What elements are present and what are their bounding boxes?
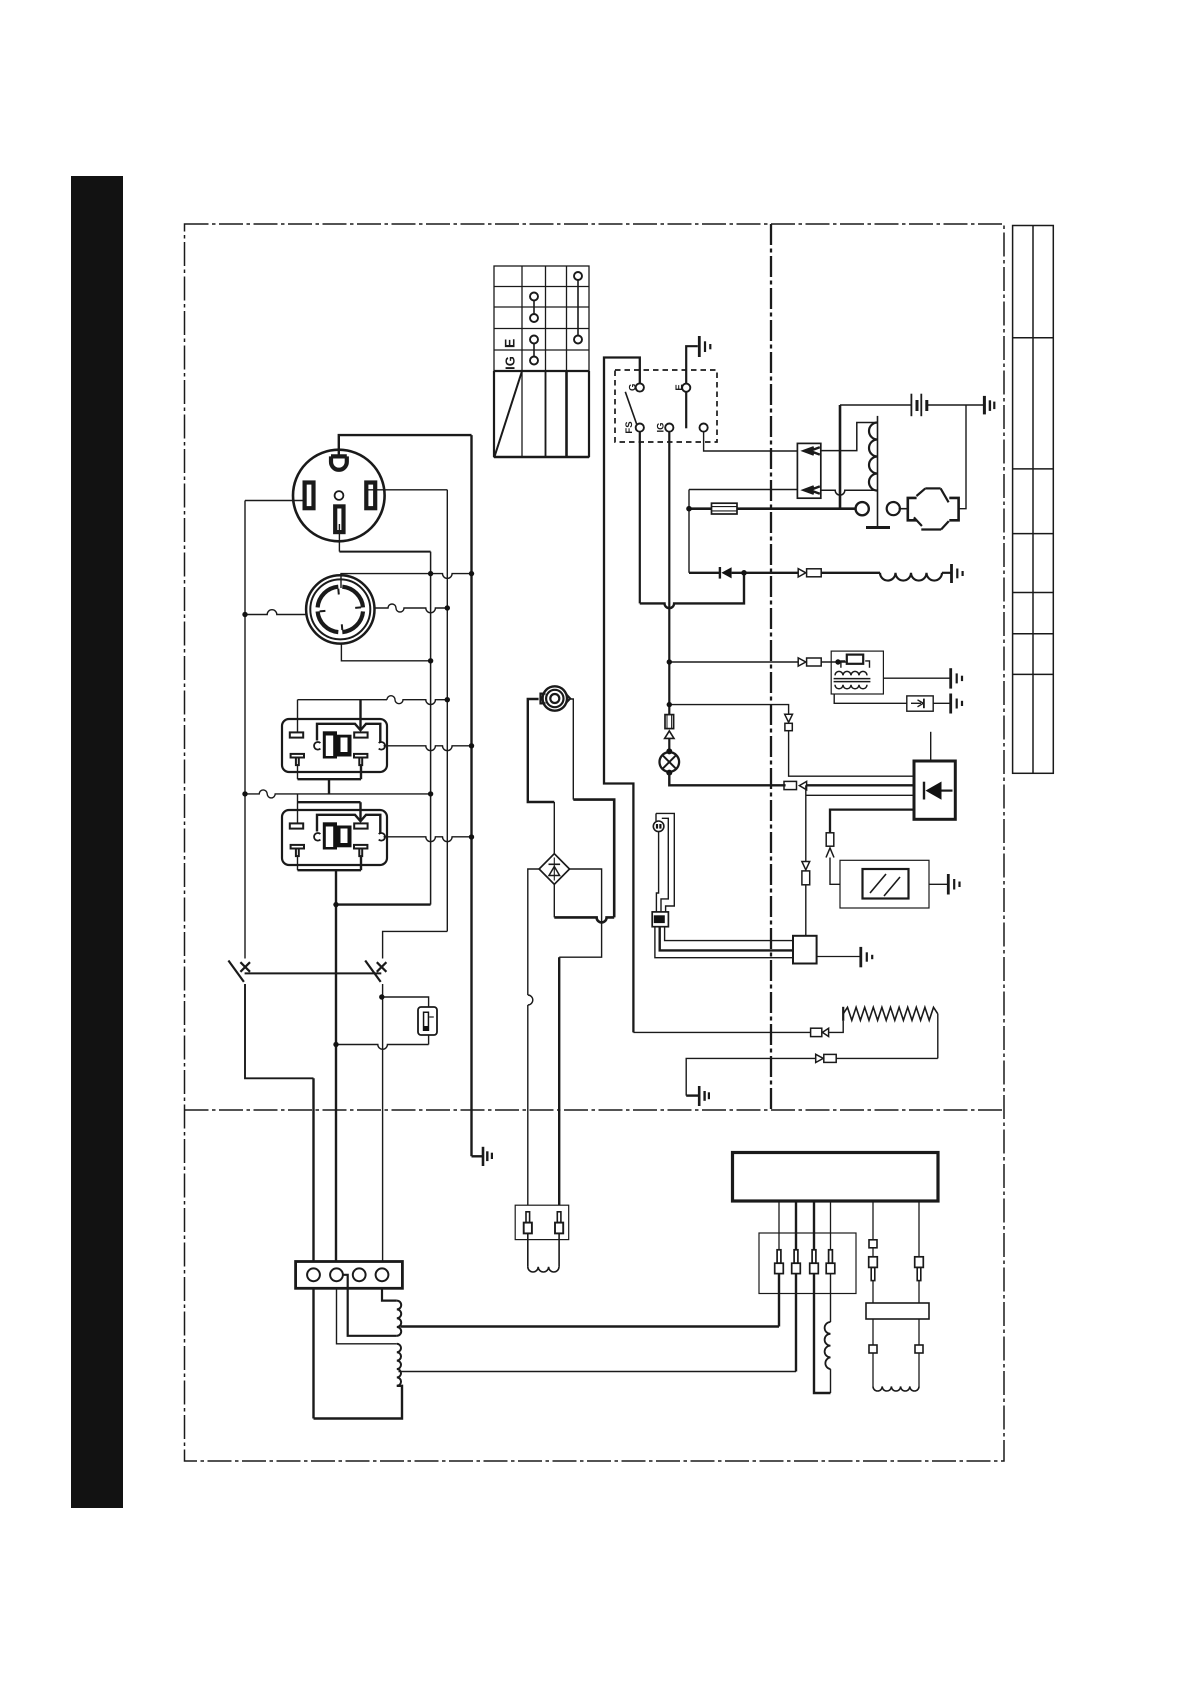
battery charging coil [528, 1267, 559, 1272]
wire: IG branch to CDI connector [669, 661, 798, 663]
svg-text:E: E [674, 384, 685, 390]
switch terminals [636, 383, 708, 431]
wire: twist-lock left with protector bump [245, 610, 307, 615]
wire: hot feed to breaker2 [383, 931, 448, 958]
wire: breaker2 to fuel sensor [383, 997, 429, 1007]
wire: starter motor return [958, 405, 966, 509]
table contact circles [530, 272, 582, 365]
revision table (right margin) [1013, 226, 1054, 774]
heater return [937, 1014, 939, 1059]
wire: neutral link w/ protector [245, 790, 431, 798]
ground symbol E [699, 336, 710, 357]
table diagonal [495, 372, 522, 456]
wire: ground riser x245 [244, 501, 246, 959]
connector pair (double chevron) [797, 443, 820, 498]
control unit leads [778, 1201, 780, 1250]
battery [911, 394, 926, 417]
wire: battery feed [840, 404, 911, 406]
pickup coil [873, 1386, 919, 1391]
connector housing [759, 1233, 856, 1294]
lighting coil [880, 573, 942, 581]
section divider horizontal (dash-dot) [185, 1109, 1005, 1111]
wire: neutral riser x430 [430, 552, 432, 905]
wire: breaker outputs [245, 984, 314, 1078]
breaker 1 [228, 961, 250, 982]
sensor lead chain left [869, 1240, 877, 1248]
control unit box [733, 1153, 939, 1202]
section divider vertical (dash-dot) [770, 224, 772, 1110]
wire: GFCI2 aux to ground bus [384, 837, 472, 842]
frame border (dash-dot) [185, 224, 1005, 1461]
fuel pump [541, 686, 571, 710]
regulator unit [914, 761, 955, 819]
heater circuit connector [633, 1031, 810, 1033]
ground symbol oil unit [948, 874, 959, 895]
fuel sensor [418, 1007, 437, 1035]
ignition coil unit [831, 651, 883, 694]
wire: IG down [668, 432, 670, 715]
oil level gauge [656, 813, 674, 912]
DC connector pair [515, 1205, 569, 1239]
wire: lamp to regulator [669, 773, 785, 786]
junction dots [242, 506, 840, 1047]
charge diode line [689, 572, 719, 574]
wire: rectifier DC plus [559, 869, 601, 957]
IG bullet connector [665, 715, 674, 729]
ground symbol coil [952, 564, 963, 583]
wire: neutral jog to x336 [336, 903, 431, 905]
switch lever [625, 392, 636, 424]
engine switch box (dashed) [615, 370, 717, 442]
wire: fuel sensor bottom [428, 1035, 430, 1045]
wire: twist-lock bottom [341, 643, 430, 660]
wire: breaker tie bar [245, 972, 382, 974]
wire: equipment-ground bus vertical [470, 435, 472, 1156]
table bold lines [494, 370, 589, 372]
gauge leads [665, 927, 793, 941]
sub coil [825, 1322, 831, 1369]
ground symbol at bus bottom [472, 1147, 492, 1166]
resistor block [866, 1303, 929, 1319]
wire: receptacle A left slot [245, 500, 305, 502]
wire: coil unit to ground [883, 677, 950, 679]
wire: GFCI1 feed with protector [298, 696, 448, 705]
sidebar black tab [71, 176, 123, 1508]
starter solenoid coil [877, 416, 879, 528]
twist-lock receptacle B [306, 575, 374, 643]
risers to windings [778, 1274, 780, 1327]
receptacle A (4-prong) [293, 450, 385, 542]
wire: pump left to rectifier [528, 699, 555, 802]
wire: neutral down to terminal [335, 1045, 337, 1262]
wire: E stub [685, 392, 687, 429]
connector pair on ignition line [798, 569, 806, 577]
wire: G to heater net [604, 358, 640, 1033]
junction box [793, 936, 817, 964]
wire: pump right loop [570, 699, 573, 800]
svg-text:E: E [502, 339, 518, 348]
GFCI outlet 2 [282, 794, 387, 905]
wire: GFCI1 aux to ground bus [384, 746, 472, 751]
wire: connector to solenoid coil bottom (hop over battery line) [821, 490, 878, 495]
oil warning unit [840, 860, 929, 908]
wire: twist-lock top [341, 574, 431, 588]
sensor lead chain right [915, 1257, 924, 1268]
pilot lamp [660, 752, 680, 772]
GFCI outlet 1 [282, 700, 387, 794]
wire: 4th terminal to connector [704, 432, 798, 451]
wire: FS to diode node (hop over IG) [640, 573, 744, 608]
generator main winding [382, 1288, 397, 1300]
switch position table [494, 266, 589, 457]
wire: regulator to oil unit [830, 810, 914, 833]
wire: twist-lock right with protector [374, 604, 447, 613]
svg-text:G: G [628, 384, 639, 391]
wire: IG branch 2 [669, 705, 788, 715]
breaker 2 [365, 961, 386, 982]
starter solenoid contact + motor [856, 502, 869, 515]
terminal block [296, 1262, 403, 1289]
wire: receptacle A bottom slot [338, 524, 340, 552]
wire: E to ground [686, 346, 698, 383]
ground symbol heater [686, 1086, 709, 1106]
svg-text:FS: FS [624, 421, 635, 433]
wire: tee down to junction box [805, 785, 807, 861]
heater element [843, 1007, 938, 1020]
wire: connector to solenoid coil top [821, 423, 878, 451]
wire: receptacle A right slot [368, 489, 447, 491]
svg-text:IG: IG [503, 356, 518, 370]
fuse [689, 507, 712, 510]
wire: receptacle A ground pin up [339, 435, 472, 456]
wire: rectifier DC minus [528, 869, 539, 995]
ground symbol battery [984, 396, 994, 415]
spark plug lead [834, 694, 907, 703]
wire: exciter return [689, 489, 798, 491]
bullet terminals [775, 1250, 835, 1274]
svg-text:IG: IG [656, 422, 667, 432]
rectifier diamond [539, 854, 569, 885]
wire: hot riser x447 [446, 490, 448, 932]
wire: FS down [639, 432, 641, 604]
